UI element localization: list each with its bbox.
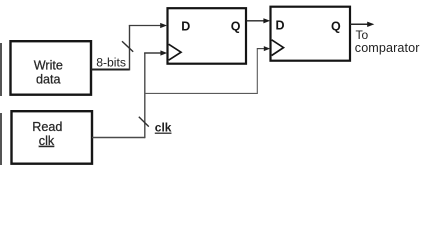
- wire: clk branch horizontal to U2: [144, 92, 257, 94]
- U1 clock triangle: [169, 44, 181, 60]
- crop artifact line lower-left: [0, 113, 2, 165]
- wire: clk branch vertical riser: [256, 49, 258, 94]
- bus width slash 8-bits: [122, 41, 133, 52]
- svg-text:comparator: comparator: [355, 41, 420, 55]
- wire: Write data bus horizontal: [91, 69, 130, 71]
- svg-text:clk: clk: [39, 134, 55, 148]
- clk slash: [139, 117, 149, 127]
- svg-text:clk: clk: [155, 121, 172, 135]
- crop artifact line upper-left: [0, 43, 2, 96]
- block: Write data: [11, 41, 92, 94]
- svg-text:To: To: [356, 28, 369, 42]
- wire: bus into U1 D with arrow: [129, 25, 162, 27]
- wire: U2 Q output arrow to comparator: [350, 23, 369, 25]
- svg-text:D: D: [276, 19, 285, 33]
- wire: U1 Q to U2 D with arrow: [247, 20, 265, 22]
- wire: clk vertical riser: [144, 53, 146, 138]
- svg-text:Q: Q: [231, 20, 241, 34]
- svg-text:Write: Write: [34, 58, 63, 72]
- wire: bus vertical riser: [129, 26, 131, 71]
- wire: Read clk horizontal: [92, 137, 145, 139]
- U2 clock triangle: [272, 40, 284, 56]
- svg-text:8-bits: 8-bits: [96, 55, 126, 69]
- wire: clk into U1 clock with arrow: [144, 52, 162, 54]
- wire: clk into U2 clock with arrow: [257, 48, 265, 50]
- svg-text:D: D: [181, 20, 190, 34]
- flip-flop U1 box: [168, 8, 247, 64]
- svg-text:Q: Q: [331, 19, 341, 33]
- flip-flop U2 box: [271, 7, 351, 61]
- svg-text:data: data: [36, 72, 61, 86]
- block: Read clk: [12, 111, 93, 164]
- svg-text:Read: Read: [32, 120, 62, 134]
